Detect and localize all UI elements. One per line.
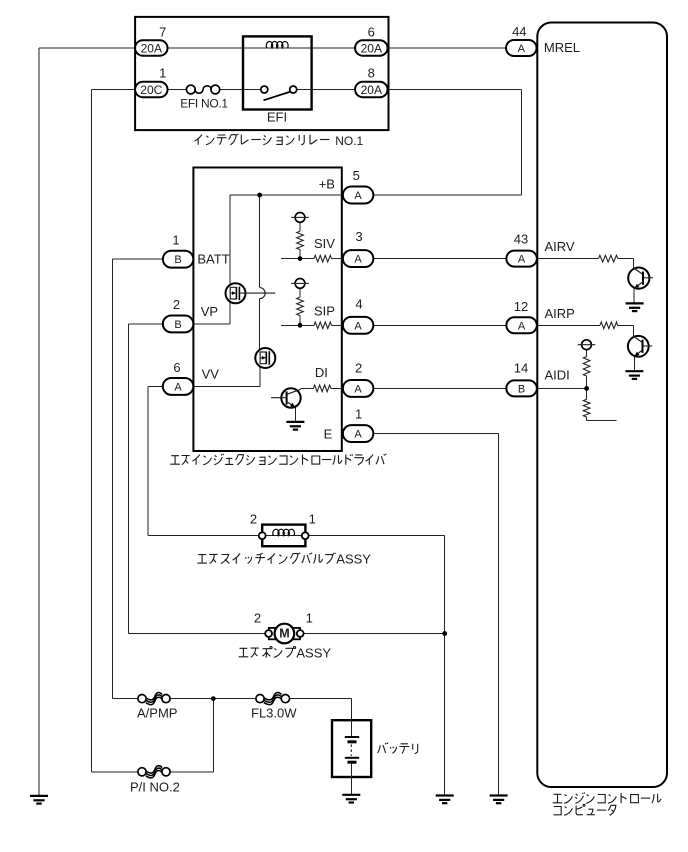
- svg-text:20C: 20C: [140, 83, 162, 97]
- svg-text:6: 6: [368, 24, 375, 39]
- svg-text:20A: 20A: [141, 41, 162, 55]
- svg-text:AIDI: AIDI: [545, 368, 570, 383]
- svg-text:A: A: [354, 429, 362, 441]
- svg-text:20A: 20A: [361, 41, 382, 55]
- svg-text:A: A: [354, 320, 362, 332]
- svg-text:1: 1: [172, 232, 179, 247]
- svg-text:2: 2: [355, 361, 362, 376]
- svg-text:5: 5: [353, 168, 360, 183]
- svg-text:MREL: MREL: [544, 40, 580, 55]
- svg-text:+B: +B: [319, 177, 335, 192]
- svg-text:B: B: [518, 383, 525, 395]
- svg-text:3: 3: [355, 229, 362, 244]
- svg-text:1: 1: [159, 66, 166, 81]
- svg-text:14: 14: [514, 361, 528, 376]
- svg-text:SIP: SIP: [314, 304, 335, 319]
- svg-text:B: B: [174, 254, 181, 266]
- svg-text:1: 1: [306, 610, 313, 625]
- svg-text:EFI: EFI: [267, 110, 287, 125]
- svg-text:VV: VV: [202, 367, 220, 382]
- svg-text:12: 12: [514, 299, 528, 314]
- svg-text:2: 2: [254, 610, 261, 625]
- svg-text:AIRV: AIRV: [545, 239, 575, 254]
- svg-text:2: 2: [250, 511, 257, 526]
- svg-text:4: 4: [355, 296, 362, 311]
- svg-text:A: A: [354, 254, 362, 266]
- svg-text:1: 1: [355, 406, 362, 421]
- svg-text:A: A: [354, 190, 362, 202]
- svg-text:6: 6: [173, 360, 180, 375]
- svg-text:ASSY: ASSY: [336, 552, 371, 567]
- svg-text:E: E: [324, 427, 333, 442]
- svg-text:M: M: [279, 627, 289, 641]
- svg-text:43: 43: [514, 232, 528, 247]
- svg-text:AIRP: AIRP: [545, 306, 575, 321]
- svg-text:ASSY: ASSY: [296, 645, 331, 660]
- svg-text:A/PMP: A/PMP: [137, 705, 177, 720]
- svg-text:VP: VP: [201, 304, 218, 319]
- svg-text:A: A: [354, 383, 362, 395]
- svg-text:2: 2: [173, 297, 180, 312]
- svg-text:BATT: BATT: [197, 251, 229, 266]
- svg-text:B: B: [174, 319, 181, 331]
- svg-text:1: 1: [309, 511, 316, 526]
- svg-text:DI: DI: [315, 365, 328, 380]
- svg-text:P/I NO.2: P/I NO.2: [130, 779, 180, 794]
- svg-text:SIV: SIV: [314, 236, 335, 251]
- svg-text:A: A: [518, 43, 526, 55]
- svg-text:20A: 20A: [361, 83, 382, 97]
- svg-text:NO.1: NO.1: [335, 134, 363, 148]
- svg-text:8: 8: [368, 66, 375, 81]
- svg-text:EFI NO.1: EFI NO.1: [180, 97, 228, 111]
- svg-text:A: A: [174, 381, 182, 393]
- svg-text:FL3.0W: FL3.0W: [251, 705, 297, 720]
- svg-text:A: A: [518, 254, 526, 266]
- svg-text:7: 7: [159, 24, 166, 39]
- svg-text:A: A: [518, 320, 526, 332]
- svg-text:44: 44: [512, 24, 526, 39]
